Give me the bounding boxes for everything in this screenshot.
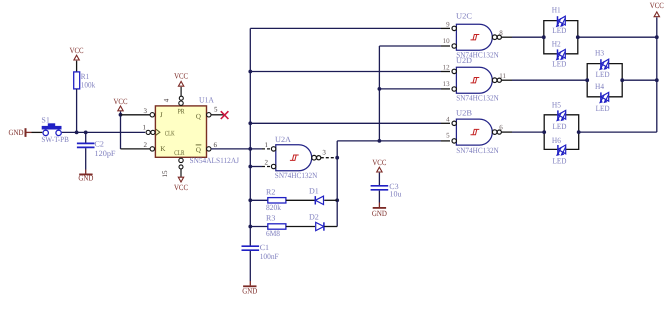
wire to K pin bbox=[121, 148, 151, 150]
svg-text:LED: LED bbox=[552, 60, 566, 69]
wire output row to U2B pin 5 bbox=[337, 140, 441, 142]
svg-text:9: 9 bbox=[446, 20, 450, 28]
svg-text:8: 8 bbox=[499, 29, 503, 37]
ground below C2 bbox=[79, 173, 92, 175]
power VCC top right bbox=[654, 12, 659, 17]
wire to U2C pin 9 bbox=[250, 27, 441, 29]
ground below C3 bbox=[373, 207, 386, 209]
svg-text:VCC: VCC bbox=[114, 97, 128, 106]
svg-text:H4: H4 bbox=[595, 82, 604, 91]
wire U2A output to feedback node bbox=[321, 157, 337, 159]
wire bus Q-bar node vertical bbox=[249, 28, 251, 246]
svg-text:15: 15 bbox=[161, 170, 169, 178]
power VCC above C3 bbox=[377, 167, 382, 172]
wire bus1 to R2 bbox=[250, 199, 267, 201]
wire bus2 vertical bbox=[378, 46, 380, 141]
LED H1 bbox=[552, 6, 567, 35]
power VCC above R1 bbox=[74, 55, 79, 60]
svg-text:6: 6 bbox=[499, 124, 503, 132]
svg-text:VCC: VCC bbox=[174, 183, 188, 192]
wire U2B output to H5/H6 bbox=[502, 131, 512, 133]
wire LED pair H5/H6 frame bbox=[544, 115, 579, 150]
svg-text:LED: LED bbox=[596, 104, 610, 113]
junction feedback/D1 row bbox=[335, 198, 339, 202]
wire bus1 to U2A pin 2 bbox=[250, 166, 262, 168]
wire switch to CLK node bbox=[62, 131, 145, 133]
svg-text:Q: Q bbox=[196, 112, 201, 120]
wire to U2B pin 4 bbox=[250, 122, 441, 124]
svg-text:PR: PR bbox=[178, 108, 185, 116]
wire to U2C pin 10 bbox=[379, 45, 441, 47]
junction bus1/R2 row bbox=[248, 198, 252, 202]
capacitor C1 100nF bbox=[242, 243, 280, 285]
svg-text:GND: GND bbox=[78, 174, 93, 183]
junction rail/H1H2 bbox=[655, 35, 659, 39]
junction rail/H3H4 bbox=[655, 78, 659, 82]
junction H1/H2 right bbox=[576, 35, 580, 39]
svg-text:SW-T-PB: SW-T-PB bbox=[41, 135, 69, 144]
junction U2A output bbox=[335, 156, 339, 160]
junction bus1/pin12 row bbox=[248, 70, 252, 74]
junction C2 tap bbox=[84, 131, 88, 135]
svg-text:S1: S1 bbox=[41, 116, 49, 125]
junction H5/H6 right bbox=[577, 130, 581, 134]
junction H3/H4 left bbox=[585, 78, 589, 82]
svg-text:100k: 100k bbox=[81, 81, 95, 90]
svg-text:R2: R2 bbox=[266, 187, 275, 196]
diode D1 bbox=[309, 186, 324, 204]
svg-text:4: 4 bbox=[446, 115, 450, 123]
LED H3 bbox=[595, 49, 610, 79]
wire D2 to feedback corner bbox=[324, 226, 337, 228]
junction bus2/pin5 row bbox=[378, 139, 382, 143]
svg-text:VCC: VCC bbox=[70, 46, 84, 55]
power VCC for J/K bias bbox=[118, 106, 123, 111]
junction H1/H2 left bbox=[542, 35, 546, 39]
svg-text:CLK: CLK bbox=[165, 129, 175, 137]
wire R3 to D2 bbox=[286, 226, 315, 228]
junction bus1/pin4 row bbox=[248, 121, 252, 125]
pin 1 CLK input bbox=[146, 130, 150, 134]
junction H5/H6 left bbox=[542, 130, 546, 134]
pin 2 K input bbox=[150, 147, 154, 151]
junction R1/wire bbox=[75, 131, 79, 135]
LED H4 bbox=[595, 82, 610, 113]
svg-text:LED: LED bbox=[553, 122, 567, 131]
power VCC above U1A bbox=[178, 81, 183, 86]
switch S1 SW-T-PB bbox=[41, 116, 69, 144]
svg-text:SN74HC132N: SN74HC132N bbox=[456, 146, 499, 155]
svg-text:13: 13 bbox=[443, 80, 451, 88]
wire to J pin bbox=[121, 114, 151, 116]
svg-text:LED: LED bbox=[552, 26, 566, 35]
svg-text:5: 5 bbox=[214, 105, 218, 113]
svg-text:Q: Q bbox=[196, 146, 201, 154]
svg-text:U2D: U2D bbox=[456, 56, 472, 65]
svg-text:U2B: U2B bbox=[456, 108, 472, 117]
svg-text:6: 6 bbox=[214, 141, 218, 149]
junction J tap bbox=[119, 113, 123, 117]
wire U2C output to H1/H2 bbox=[502, 36, 512, 38]
svg-text:10: 10 bbox=[443, 37, 451, 45]
wire LED pair H1/H2 frame bbox=[544, 21, 578, 54]
wire to U2D pin 13 bbox=[379, 88, 441, 90]
svg-text:U2C: U2C bbox=[456, 12, 472, 21]
flip-flop U1A SN54ALS112AJ bbox=[155, 95, 239, 165]
svg-text:4: 4 bbox=[162, 98, 170, 102]
svg-text:H5: H5 bbox=[552, 101, 561, 110]
wire VCC bias vertical bbox=[120, 111, 122, 148]
svg-text:VCC: VCC bbox=[650, 1, 664, 10]
svg-text:C1: C1 bbox=[260, 243, 269, 252]
svg-text:820k: 820k bbox=[266, 203, 281, 212]
junction bus1/R3 row bbox=[248, 225, 252, 229]
wire feedback vertical bbox=[336, 141, 338, 227]
svg-text:U1A: U1A bbox=[199, 95, 214, 104]
svg-text:R3: R3 bbox=[266, 214, 275, 223]
svg-text:C2: C2 bbox=[95, 140, 104, 149]
wire R1 to node bbox=[76, 89, 78, 132]
wire Q-bar to U2A input 1 bbox=[211, 148, 262, 150]
svg-text:1: 1 bbox=[143, 124, 147, 132]
svg-text:H1: H1 bbox=[552, 6, 561, 15]
ground port GND (left) bbox=[25, 128, 27, 137]
svg-text:H3: H3 bbox=[595, 49, 604, 58]
no-connect X on pin 5 bbox=[221, 111, 229, 119]
wire to U2D pin 12 bbox=[250, 71, 441, 73]
svg-text:VCC: VCC bbox=[372, 158, 386, 167]
svg-text:VCC: VCC bbox=[174, 72, 188, 81]
svg-text:GND: GND bbox=[372, 209, 387, 218]
svg-text:12: 12 bbox=[443, 63, 451, 71]
diode D2 bbox=[309, 212, 324, 230]
power VCC below U1A bbox=[178, 177, 183, 182]
svg-text:H6: H6 bbox=[552, 136, 561, 145]
svg-text:H2: H2 bbox=[552, 40, 561, 49]
wire bus1 to R3 bbox=[250, 226, 267, 228]
svg-text:120pF: 120pF bbox=[95, 149, 117, 158]
LED H6 bbox=[552, 136, 567, 166]
svg-text:2: 2 bbox=[144, 141, 148, 149]
svg-text:D1: D1 bbox=[309, 186, 319, 195]
junction bus2/pin13 row bbox=[378, 87, 382, 91]
svg-text:100nF: 100nF bbox=[260, 252, 280, 261]
svg-text:CLR: CLR bbox=[174, 149, 184, 157]
LED H5 bbox=[552, 101, 567, 131]
svg-text:1: 1 bbox=[265, 141, 269, 149]
svg-text:D2: D2 bbox=[309, 212, 319, 221]
svg-text:LED: LED bbox=[553, 156, 567, 165]
pin 15 CLR to VCC bbox=[179, 158, 183, 162]
resistor R1 100k bbox=[74, 72, 96, 90]
pin 5 Q output bbox=[207, 113, 211, 117]
wire H1/H2 to rail bbox=[578, 36, 657, 38]
junction H3/H4 right bbox=[620, 78, 624, 82]
svg-text:K: K bbox=[160, 145, 165, 153]
capacitor C2 120pF bbox=[77, 132, 116, 173]
junction bus1/Q-bar row bbox=[248, 147, 252, 151]
pin 4 PR to VCC bbox=[179, 101, 183, 105]
LED H2 bbox=[552, 40, 567, 69]
capacitor C3 10u bbox=[371, 173, 402, 207]
wire U2D output to H3/H4 bbox=[502, 79, 512, 81]
wire D1 to feedback bbox=[324, 199, 337, 201]
wire LED pair H3/H4 frame bbox=[587, 64, 622, 97]
resistor R2 820k bbox=[266, 187, 286, 212]
pin 3 J input bbox=[150, 113, 154, 117]
wire rail to H5/H6 bbox=[579, 131, 657, 133]
nand gate U2A SN74HC132N (schmitt) bbox=[271, 135, 320, 180]
wire VCC rail bbox=[656, 17, 658, 132]
svg-text:GND: GND bbox=[9, 128, 24, 137]
ground below C1 bbox=[243, 285, 256, 287]
svg-text:J: J bbox=[160, 111, 163, 119]
wire H3/H4 to rail bbox=[622, 79, 657, 81]
svg-text:U2A: U2A bbox=[275, 135, 291, 144]
svg-text:SN54ALS112AJ: SN54ALS112AJ bbox=[190, 156, 240, 165]
svg-text:6M8: 6M8 bbox=[266, 229, 280, 238]
pin 6 Q-bar output bbox=[207, 147, 211, 151]
nand gate U2B SN74HC132N (schmitt) bbox=[452, 108, 501, 155]
wire GND to switch S1 bbox=[32, 131, 43, 133]
svg-text:10u: 10u bbox=[390, 189, 402, 198]
wire R2 to D1 bbox=[286, 199, 315, 201]
svg-text:LED: LED bbox=[596, 70, 610, 79]
svg-text:SN74HC132N: SN74HC132N bbox=[456, 93, 499, 102]
nand gate U2C SN74HC132N (schmitt) bbox=[452, 12, 501, 60]
svg-text:3: 3 bbox=[144, 107, 148, 115]
svg-text:2: 2 bbox=[265, 158, 269, 166]
nand gate U2D SN74HC132N (schmitt) bbox=[452, 56, 501, 102]
svg-text:3: 3 bbox=[322, 149, 326, 157]
junction bus1/U2A pin2 row bbox=[248, 165, 252, 169]
svg-text:GND: GND bbox=[242, 287, 257, 296]
svg-text:5: 5 bbox=[446, 132, 450, 140]
svg-text:11: 11 bbox=[499, 72, 506, 80]
svg-text:SN74HC132N: SN74HC132N bbox=[275, 171, 318, 180]
resistor R3 6M8 bbox=[266, 214, 286, 239]
